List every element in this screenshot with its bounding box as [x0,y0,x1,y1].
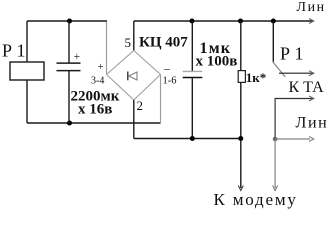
wire: bottom rail [134,138,241,140]
wire: switch pole lead [272,21,274,62]
wire: gray lead down to modem [274,139,276,188]
capacitor C2 bottom lead [191,78,193,139]
capacitor C2 top lead [191,21,193,71]
svg-text:х 16в: х 16в [78,102,112,118]
wire: relay P1 top lead [26,21,28,62]
node: C2 bottom junction [190,136,195,141]
resistor R2 top lead [240,21,242,71]
svg-text:Р 1: Р 1 [2,41,26,61]
svg-text:3-4: 3-4 [91,76,104,87]
svg-text:1к*: 1к* [246,70,266,85]
svg-text:Лин: Лин [297,0,326,15]
capacitor C1 bottom lead [68,71,70,123]
wire: top-right rail [134,20,313,22]
switch P1 blade [273,62,286,77]
node: R2 branch bottom junction [238,136,243,141]
wire: bridge pin5 top lead [133,21,135,51]
node: R2 top junction [238,19,243,24]
wire: bridge plus lead (gray) [106,22,108,75]
wire: line-to-phone horizontal arrow [275,99,312,140]
svg-text:+: + [98,61,104,73]
wire: arrow to TA [279,72,313,74]
arrowhead: gray line arrow [309,137,314,142]
wire: bottom-left rail [27,122,161,124]
arrowhead: line out top right [309,19,314,24]
svg-text:–: – [163,61,171,75]
node: C1 bottom junction [67,121,72,126]
wire: relay P1 bottom lead [26,80,28,123]
svg-text:2: 2 [137,98,144,113]
svg-text:1-6: 1-6 [163,75,177,86]
capacitor C1 top lead [68,21,70,63]
relay P1 coil [10,62,44,80]
svg-text:К ТА: К ТА [289,79,325,96]
diode symbol inside bridge [128,72,137,81]
wire: top-left rail [27,20,107,22]
wire: gray arrow to line [275,138,310,140]
node: switch pole junction [271,19,276,24]
node: gray junction [273,137,278,142]
bridge rectifier VD1 КЦ407 diamond [107,51,161,101]
svg-text:КЦ 407: КЦ 407 [139,35,188,51]
svg-text:5: 5 [125,35,132,50]
arrowhead: down to modem (left) [238,186,243,191]
wire: bridge minus lead (gray) [160,75,162,124]
resistor R2 bottom lead / wire to modem [240,82,242,188]
svg-text:Лин: Лин [296,115,329,132]
arrowhead: to TA [309,71,314,76]
svg-text:х 100в: х 100в [196,54,238,70]
svg-text:+: + [74,51,81,63]
resistor R2 body (1к*) [238,71,245,83]
capacitor C1 plates (2200мк) [57,63,81,71]
node: C1 top junction [67,19,72,24]
wire: bridge pin2 bottom lead [133,100,135,139]
svg-text:Р 1: Р 1 [280,44,304,64]
capacitor C2 plates (1мк) [183,71,203,77]
arrowhead: phone line [309,96,314,101]
arrowhead: down to modem (right) [273,186,278,191]
node: C2 top junction [190,19,195,24]
svg-text:К модему: К модему [214,190,298,209]
